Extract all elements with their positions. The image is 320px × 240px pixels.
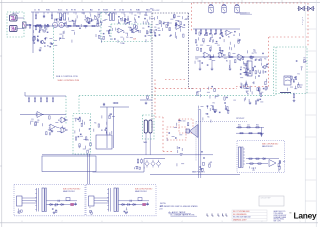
- svg-text:R1: R1: [83, 13, 85, 15]
- svg-text:R1: R1: [87, 139, 89, 141]
- svg-text:R1: R1: [207, 117, 209, 119]
- svg-text:R1: R1: [218, 45, 220, 47]
- svg-text:R1: R1: [266, 66, 268, 68]
- svg-text:R61: R61: [238, 125, 241, 127]
- svg-text:C41: C41: [247, 125, 250, 127]
- svg-text:R1: R1: [196, 45, 198, 47]
- svg-text:R4: R4: [66, 10, 68, 12]
- svg-text:SUB 1 CTRL PCB ISS 2: SUB 1 CTRL PCB ISS 2: [135, 189, 152, 191]
- svg-text:R9: R9: [71, 10, 73, 12]
- svg-text:R3: R3: [38, 10, 40, 12]
- svg-text:R62: R62: [256, 125, 259, 127]
- svg-text:R1: R1: [37, 120, 39, 122]
- svg-text:R1: R1: [121, 37, 123, 39]
- svg-text:ALL RESISTORS 1/4W 5% UNLESS S: ALL RESISTORS 1/4W 5% UNLESS STATED: [160, 205, 198, 208]
- svg-text:SHT 1 OF 1: SHT 1 OF 1: [274, 220, 282, 222]
- svg-text:8: 8: [22, 221, 23, 223]
- svg-text:NOTE:: NOTE:: [160, 203, 167, 205]
- svg-text:R1: R1: [123, 32, 125, 34]
- svg-text:ISS 3 REVERB MOD: ISS 3 REVERB MOD: [233, 214, 247, 216]
- svg-text:C9: C9: [119, 10, 121, 12]
- svg-text:R1: R1: [233, 35, 235, 37]
- svg-text:2: 2: [262, 221, 263, 223]
- svg-text:R1: R1: [126, 33, 128, 35]
- svg-text:R1: R1: [206, 114, 208, 116]
- svg-text:R1: R1: [109, 36, 111, 38]
- svg-text:MAIN PCB ISS 1: MAIN PCB ISS 1: [192, 171, 205, 174]
- svg-text:R2: R2: [82, 10, 84, 12]
- svg-text:R1: R1: [243, 68, 245, 70]
- svg-text:R1: R1: [240, 67, 242, 69]
- svg-text:5: 5: [142, 1, 143, 3]
- svg-text:R1: R1: [210, 162, 212, 164]
- svg-text:R1: R1: [304, 57, 306, 59]
- svg-text:R1: R1: [178, 25, 180, 27]
- svg-text:R1: R1: [101, 39, 103, 41]
- svg-text:1: 1: [300, 221, 301, 223]
- svg-text:R3: R3: [146, 10, 148, 12]
- svg-text:Laney: Laney: [294, 210, 318, 220]
- svg-text:R5: R5: [130, 10, 132, 12]
- svg-text:4: 4: [182, 221, 183, 223]
- svg-text:LINWOOD IND EST: LINWOOD IND EST: [274, 215, 287, 217]
- svg-text:TITLE: MXD30: TITLE: MXD30: [274, 213, 284, 215]
- svg-text:8: 8: [22, 1, 23, 3]
- svg-text:R1: R1: [158, 28, 160, 30]
- svg-text:JACK IN: JACK IN: [12, 12, 19, 15]
- svg-text:CIRCUIT REF: CIRCUIT REF: [261, 198, 271, 200]
- svg-text:R1: R1: [154, 27, 156, 29]
- svg-text:R1: R1: [67, 27, 69, 29]
- svg-text:R1: R1: [217, 95, 219, 97]
- svg-text:R1: R1: [134, 15, 136, 17]
- svg-text:R1: R1: [101, 130, 103, 132]
- svg-text:R1: R1: [89, 23, 91, 25]
- svg-text:R1: R1: [40, 47, 42, 49]
- svg-text:R1: R1: [252, 53, 254, 55]
- svg-text:R1: R1: [219, 34, 221, 36]
- svg-text:R1: R1: [252, 82, 254, 84]
- svg-text:3: 3: [222, 221, 223, 223]
- svg-text:R1: R1: [251, 58, 253, 60]
- svg-text:R4: R4: [48, 10, 50, 12]
- svg-text:R1: R1: [99, 31, 101, 33]
- svg-text:7: 7: [62, 1, 63, 3]
- svg-text:SUB 1 CTRL PCB ISS 2: SUB 1 CTRL PCB ISS 2: [262, 144, 278, 146]
- svg-text:6: 6: [102, 221, 103, 223]
- svg-text:FX LOOP: FX LOOP: [152, 10, 160, 12]
- svg-text:R1: R1: [169, 36, 171, 38]
- svg-text:R1: R1: [228, 36, 230, 38]
- svg-text:R5: R5: [58, 10, 60, 12]
- svg-text:R1: R1: [89, 149, 91, 151]
- svg-text:R4: R4: [138, 10, 140, 12]
- svg-text:R1: R1: [90, 10, 92, 12]
- svg-text:R1: R1: [45, 38, 47, 40]
- svg-text:R1: R1: [246, 92, 248, 94]
- svg-text:R6: R6: [122, 10, 124, 12]
- svg-text:R1: R1: [226, 61, 228, 63]
- svg-text:R1: R1: [150, 32, 152, 34]
- svg-text:R1: R1: [142, 28, 144, 30]
- svg-text:6: 6: [102, 1, 103, 3]
- svg-text:R1: R1: [234, 100, 236, 102]
- svg-text:C1: C1: [34, 10, 36, 12]
- svg-text:R1: R1: [37, 122, 39, 124]
- svg-text:R3: R3: [74, 10, 76, 12]
- svg-text:R1: R1: [84, 20, 86, 22]
- svg-text:R1: R1: [253, 50, 255, 52]
- svg-text:C5: C5: [60, 10, 62, 12]
- svg-text:SUB 1 CONTROL PCB: SUB 1 CONTROL PCB: [58, 80, 80, 82]
- svg-text:R1: R1: [180, 155, 182, 157]
- svg-text:R7: R7: [114, 10, 116, 12]
- svg-text:C29: C29: [133, 39, 136, 41]
- svg-text:R8: R8: [106, 10, 108, 12]
- svg-text:R1: R1: [47, 45, 49, 47]
- svg-text:SUB 1 CONTROL PCB: SUB 1 CONTROL PCB: [56, 76, 78, 78]
- svg-text:R1: R1: [264, 58, 266, 60]
- svg-text:R1: R1: [54, 206, 56, 208]
- svg-text:7: 7: [62, 221, 63, 223]
- svg-text:4: 4: [182, 1, 183, 3]
- svg-text:R1: R1: [41, 30, 43, 32]
- svg-text:OPTION FIT: OPTION FIT: [236, 118, 245, 120]
- svg-text:3: 3: [222, 1, 223, 3]
- svg-text:1: 1: [300, 1, 301, 3]
- svg-text:R1: R1: [44, 46, 46, 48]
- svg-text:R1: R1: [298, 74, 300, 76]
- svg-text:R1: R1: [89, 120, 91, 122]
- svg-text:2: 2: [262, 1, 263, 3]
- svg-text:R1: R1: [94, 122, 96, 124]
- svg-text:R1: R1: [179, 121, 181, 123]
- svg-text:R1: R1: [259, 73, 261, 75]
- svg-text:R1: R1: [31, 119, 33, 121]
- svg-text:SUB 1 CTRL PCB ISS 2: SUB 1 CTRL PCB ISS 2: [63, 189, 80, 191]
- svg-text:5: 5: [142, 221, 143, 223]
- svg-text:R1: R1: [252, 170, 254, 172]
- svg-text:DRG No. MXD-1: DRG No. MXD-1: [274, 219, 285, 221]
- svg-text:R1: R1: [213, 102, 215, 104]
- svg-text:R1: R1: [300, 87, 302, 89]
- svg-text:R1: R1: [126, 37, 128, 39]
- svg-text:R1: R1: [186, 19, 188, 21]
- svg-text:R1: R1: [301, 67, 303, 69]
- svg-text:R9: R9: [98, 10, 100, 12]
- svg-text:R1: R1: [97, 23, 99, 25]
